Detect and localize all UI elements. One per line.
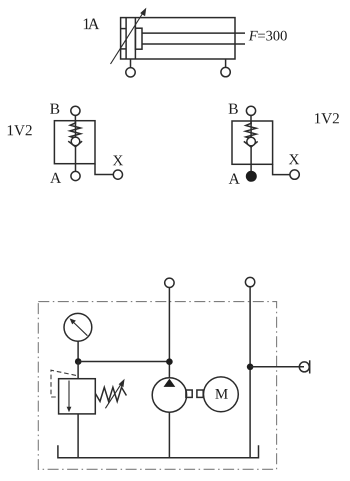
relief valve pilot line (dashed) bbox=[51, 370, 76, 397]
tank manifold bbox=[58, 445, 259, 458]
wire X stub right bbox=[273, 164, 290, 174]
seat left valve bbox=[68, 141, 82, 147]
node T1 circle (right branch top) bbox=[245, 277, 254, 286]
relief valve flow arrow bbox=[67, 381, 72, 413]
wire pump to tank bbox=[168, 412, 170, 458]
wire into relief valve bbox=[77, 362, 79, 379]
port A circle left valve bbox=[71, 171, 80, 180]
wire to plugged port bbox=[250, 366, 304, 368]
cylinder port right bbox=[221, 59, 230, 77]
junction dot pump branch bbox=[166, 358, 173, 365]
check ball left valve bbox=[71, 137, 80, 146]
label 1V2 right bbox=[315, 113, 339, 123]
seat right valve bbox=[244, 141, 258, 147]
junction dot gauge/pump line bbox=[75, 358, 82, 365]
label B right valve bbox=[229, 104, 238, 114]
wire B to valve left bbox=[74, 115, 76, 124]
pump flow triangle bbox=[164, 379, 176, 387]
label B left valve bbox=[50, 104, 59, 114]
label F=300 bbox=[249, 31, 258, 41]
junction dot right branch bbox=[247, 364, 254, 371]
wire pump branch vertical bbox=[168, 288, 170, 379]
wire relief valve to tank bbox=[77, 414, 79, 458]
port A circle right valve (plugged) bbox=[246, 171, 256, 181]
label X left valve bbox=[113, 156, 123, 166]
wire right branch vertical bbox=[249, 287, 251, 458]
wire gauge stem bbox=[77, 341, 79, 361]
cylinder port left bbox=[126, 59, 135, 77]
wire through valve left bbox=[75, 121, 77, 172]
wire X stub left bbox=[95, 164, 113, 175]
wire through valve right bbox=[250, 121, 252, 171]
plugged port bbox=[299, 360, 309, 373]
spring right valve bbox=[246, 123, 257, 138]
pressure gauge Z1 bbox=[64, 313, 92, 341]
cylinder rod bbox=[142, 33, 245, 44]
relief valve 1V body bbox=[59, 379, 96, 414]
check ball right valve bbox=[247, 137, 256, 146]
label A left valve bbox=[50, 173, 61, 183]
relief valve spring bbox=[95, 387, 126, 401]
wire gauge to pump horizontal bbox=[78, 361, 169, 363]
valve 1V2 left body bbox=[54, 121, 95, 164]
port X circle right valve bbox=[290, 170, 299, 179]
label X right valve bbox=[289, 154, 299, 164]
port X circle left valve bbox=[113, 170, 122, 179]
port B circle right valve bbox=[246, 106, 255, 115]
wire B to valve right bbox=[250, 115, 252, 124]
pump shaft coupling bbox=[186, 390, 203, 397]
gauge needle arrowhead bbox=[70, 318, 76, 324]
cushioning adjust arrow bbox=[111, 8, 147, 64]
pump 1P bbox=[152, 378, 186, 412]
relief valve adjust arrow bbox=[105, 379, 124, 409]
valve 1V2 right body bbox=[232, 121, 273, 164]
cylinder 1A body bbox=[121, 18, 235, 59]
label 1A bbox=[84, 19, 90, 30]
label 1V2 left bbox=[8, 125, 32, 135]
spring left valve bbox=[70, 123, 81, 138]
motor 1M bbox=[204, 377, 239, 412]
label M bbox=[215, 389, 228, 399]
label A right valve bbox=[229, 174, 240, 184]
port B circle left valve bbox=[71, 106, 80, 115]
power unit enclosure bbox=[38, 302, 276, 470]
node P1 circle (pump branch top) bbox=[165, 278, 174, 287]
